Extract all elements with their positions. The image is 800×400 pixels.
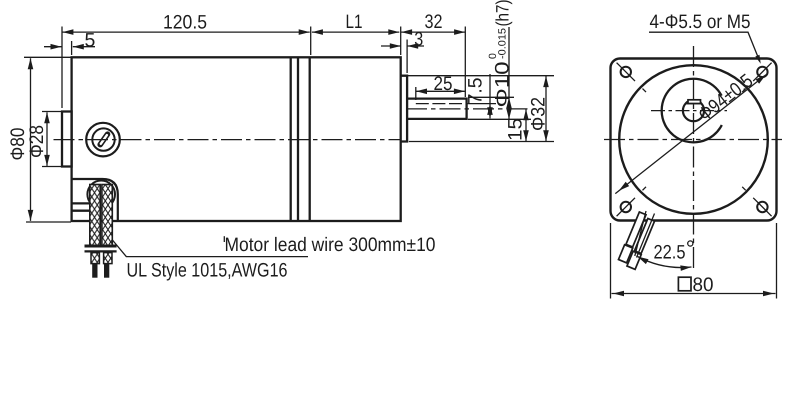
- gearbox joint line 3: [309, 57, 311, 221]
- front wire terminal B: [627, 251, 641, 269]
- ext line phi28 bottom: [42, 166, 62, 168]
- square symbol: [678, 277, 691, 291]
- dim line 7.5: [489, 74, 491, 118]
- svg-text:7.5: 7.5: [465, 77, 487, 104]
- lead wire right: [104, 264, 109, 278]
- ext line body right face x400.7: [400, 27, 402, 56]
- dim line phi28: [46, 112, 48, 166]
- mounting hole TR: [742, 63, 771, 92]
- dim line 3 right tail: [407, 45, 424, 47]
- front wire strip A: [626, 212, 646, 247]
- degree symbol: [688, 241, 693, 246]
- rear boss phi28: [62, 112, 72, 167]
- keyhole screw inner circle: [92, 128, 114, 150]
- dim line phi10: [508, 27, 510, 119]
- braided sleeve lower left column: [91, 253, 99, 264]
- dim line 25: [416, 90, 465, 92]
- shaft flat chord: [686, 103, 703, 105]
- grommet circle: [87, 181, 115, 209]
- ext line boss front x407: [406, 40, 408, 74]
- svg-text:15: 15: [505, 118, 527, 141]
- center line shaft axis: [406, 108, 531, 110]
- binding band lower: [85, 250, 117, 252]
- gearbox joint line 1: [290, 57, 292, 221]
- ext line phi80 bottom: [26, 221, 71, 223]
- svg-text:25: 25: [434, 73, 453, 95]
- svg-text:3: 3: [414, 28, 423, 50]
- svg-text:80: 80: [693, 274, 714, 296]
- lead wire left: [92, 264, 97, 278]
- motor body outline: [72, 57, 401, 221]
- dim line square80: [612, 293, 776, 295]
- ext line phi32 bottom: [409, 141, 554, 143]
- shaft flat edge (dashed): [416, 87, 466, 104]
- extension + dimension thin lines: [24, 27, 554, 223]
- ext line square right: [776, 223, 778, 299]
- front wire terminal A: [618, 245, 632, 263]
- svg-text:120.5: 120.5: [163, 12, 207, 34]
- dim text phi10 tolerance rotated: [487, 0, 514, 108]
- gearbox joint line 2: [297, 57, 299, 221]
- ext line square left: [610, 223, 612, 299]
- dim line 120.5: [62, 31, 309, 33]
- braided sleeve upper right column: [102, 185, 112, 246]
- cable clamp lines: [72, 203, 90, 210]
- braided sleeve upper left column: [90, 185, 100, 246]
- svg-text:UL Style 1015,AWG16: UL Style 1015,AWG16: [127, 260, 288, 282]
- wire boot outline: [72, 179, 118, 221]
- braided sleeve lower right column: [104, 253, 112, 264]
- ext line flat 7.5: [468, 103, 497, 105]
- svg-text:4-Φ5.5 or M5: 4-Φ5.5 or M5: [650, 11, 751, 33]
- phi94 dimension diagonal: [615, 73, 767, 194]
- svg-text:32: 32: [425, 11, 443, 33]
- svg-text:Φ28: Φ28: [26, 125, 48, 158]
- dim line L1: [312, 31, 399, 33]
- svg-text:Motor lead wire 300mm±10: Motor lead wire 300mm±10: [225, 234, 436, 256]
- dim line 5 right tail: [73, 46, 95, 48]
- body circle: [619, 65, 768, 214]
- center line motor axis: [54, 139, 401, 141]
- binding band upper: [85, 245, 117, 248]
- svg-text:Φ10: Φ10: [492, 61, 514, 107]
- arrowheads side view: [28, 29, 549, 221]
- dim line 32: [401, 31, 465, 33]
- output shaft phi10: [407, 99, 467, 119]
- center line horizontal shaft front: [651, 110, 727, 112]
- svg-text:5: 5: [85, 30, 96, 52]
- ext line shaft bottom phi10: [468, 118, 531, 120]
- square80 dimension: [611, 223, 777, 299]
- svg-text:-0.015: -0.015: [496, 28, 508, 59]
- ext line shaft end x465.3: [464, 27, 466, 98]
- leader for lead wires: [112, 240, 308, 257]
- screw slot: [100, 134, 107, 144]
- keyhole screw outer circle: [86, 123, 120, 157]
- ext line phi28 top: [42, 111, 62, 113]
- dim line phi80: [30, 58, 32, 221]
- center line vertical front: [693, 46, 695, 271]
- svg-text:Φ32: Φ32: [528, 97, 550, 131]
- ext line phi32 top: [402, 75, 554, 77]
- 22.5 degree arc: [638, 257, 692, 268]
- dim line 3 left tail: [381, 45, 401, 47]
- gearhead C arc: [662, 79, 722, 143]
- svg-text:22.5: 22.5: [654, 242, 686, 264]
- mounting hole BR: [742, 187, 771, 216]
- center line horizontal body front: [604, 139, 782, 141]
- key rect: [688, 100, 701, 104]
- leader tick: [223, 236, 225, 242]
- dim line 5 left tail: [44, 46, 62, 48]
- flange square: [611, 59, 777, 221]
- mounting hole BL: [617, 187, 646, 216]
- dim line phi32: [545, 76, 547, 141]
- svg-text:L1: L1: [346, 11, 363, 33]
- ext line body left face x72: [71, 41, 73, 55]
- front shaft circle: [683, 100, 704, 121]
- ext line shaft top phi10: [468, 96, 514, 98]
- front wire strip B: [634, 218, 654, 253]
- ext line phi80 top: [24, 56, 71, 58]
- mounting hole TL: [617, 63, 646, 92]
- dim line 15: [525, 109, 527, 141]
- svg-text:(h7): (h7): [493, 0, 513, 27]
- ext line rear boss face x62: [61, 27, 63, 109]
- front boss phi32: [401, 76, 407, 142]
- label 4-phi5.5 leader: [649, 32, 760, 61]
- ext line joint x310.5: [310, 27, 312, 56]
- wire axis reference lines: [635, 211, 646, 256]
